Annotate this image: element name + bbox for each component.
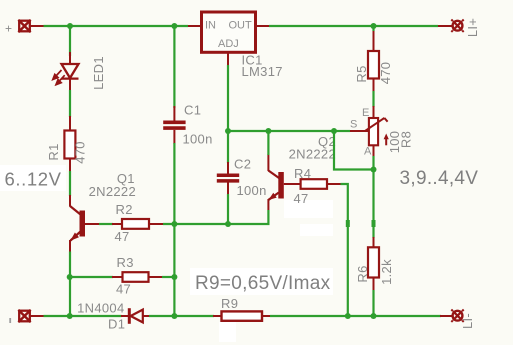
svg-text:R9: R9 <box>221 296 238 311</box>
svg-text:C2: C2 <box>234 157 251 172</box>
wire R2 to Q2 emitter corner <box>163 210 268 224</box>
terminal LI+ <box>438 20 464 32</box>
transistor Q1 <box>70 195 99 252</box>
resistor R5 <box>368 29 379 91</box>
wire top rail left <box>44 25 189 27</box>
wire C2 down <box>227 194 229 224</box>
junction R6 bottom rail <box>371 313 377 319</box>
svg-text:R5: R5 <box>354 65 369 82</box>
junction top-left node <box>67 23 73 29</box>
junction Q2 collector node <box>265 128 271 134</box>
terminal LI- <box>440 310 464 322</box>
wire ADJ vertical <box>227 65 229 131</box>
junction ADJ node <box>225 128 231 134</box>
svg-text:2N2222: 2N2222 <box>89 184 136 199</box>
junction R5 top node <box>371 23 377 29</box>
label minus <box>9 318 11 323</box>
capacitor C2 <box>217 162 239 194</box>
wire R6 to bottom rail <box>372 290 374 316</box>
svg-text:47: 47 <box>294 191 309 206</box>
resistor R3 <box>112 272 162 282</box>
svg-text:LM317: LM317 <box>242 64 283 79</box>
svg-text:6..12V: 6..12V <box>5 169 62 190</box>
svg-text:S: S <box>350 119 357 131</box>
wire joint blob left <box>346 220 350 227</box>
svg-text:LED1: LED1 <box>91 56 106 90</box>
capacitor C1 <box>163 106 185 144</box>
wire R9 to LI- <box>270 315 441 317</box>
diode D1 <box>121 308 150 324</box>
svg-text:1N4004: 1N4004 <box>77 301 124 316</box>
wire R8 to R6 <box>372 156 374 238</box>
junction R4 line bottom rail <box>345 313 351 319</box>
resistor R9 <box>213 311 270 320</box>
junction R3 left node <box>67 274 73 280</box>
svg-text:C1: C1 <box>184 103 201 118</box>
potentiometer R8 <box>349 106 389 156</box>
svg-text:OUT: OUT <box>229 20 253 32</box>
wire Q2 collector up <box>267 131 269 155</box>
wire LED to R1 <box>69 90 71 117</box>
wire C1 down to bottom rail <box>173 143 175 316</box>
transistor Q2 <box>268 154 300 210</box>
svg-text:R3: R3 <box>117 255 134 270</box>
svg-text:R6: R6 <box>355 265 370 282</box>
svg-text:D1: D1 <box>108 317 125 332</box>
svg-text:1.2k: 1.2k <box>379 259 394 285</box>
svg-text:E: E <box>362 107 369 119</box>
svg-text:470: 470 <box>73 141 88 164</box>
IC LM317 U1 <box>188 12 269 65</box>
resistor R6 <box>368 237 379 290</box>
wire wiper down leg <box>334 131 374 170</box>
svg-text:LI+: LI+ <box>465 18 480 37</box>
resistor R4 <box>301 179 341 189</box>
junction R3 right node <box>171 274 177 280</box>
svg-text:47: 47 <box>115 229 130 244</box>
wire Q1 base to R2 <box>99 223 113 225</box>
svg-text:R1: R1 <box>46 143 61 160</box>
terminal input plus <box>18 20 43 32</box>
wire D1 to R9 <box>149 315 214 317</box>
wire ADJ to C2 <box>227 131 229 163</box>
junction R8 bottom node <box>371 167 377 173</box>
svg-text:2N2222: 2N2222 <box>289 147 336 162</box>
junction C1 line at R2 wire <box>171 221 177 227</box>
wire R3 line <box>70 276 113 278</box>
svg-text:R2: R2 <box>116 202 133 217</box>
svg-text:100n: 100n <box>237 183 267 198</box>
wire LED branch <box>69 26 71 56</box>
wire R3 right <box>162 276 174 278</box>
wire wiper to junction <box>334 130 350 132</box>
wire bottom rail left <box>44 315 122 317</box>
LED LED1 <box>53 52 79 90</box>
resistor R2 <box>112 219 163 229</box>
resistor R1 <box>64 116 75 171</box>
svg-text:IN: IN <box>205 20 216 32</box>
svg-text:3,9..4,4V: 3,9..4,4V <box>400 168 479 189</box>
wire OUT to LI+ <box>269 25 438 27</box>
wire ADJ horizontal <box>228 130 334 132</box>
junction C1 line bottom rail <box>171 313 177 319</box>
svg-text:470: 470 <box>378 62 393 85</box>
svg-text:100n: 100n <box>183 132 213 147</box>
wire R1 to Q1 collector <box>69 171 71 196</box>
wire joint blob right <box>372 220 376 227</box>
wire top to R5 <box>372 26 374 31</box>
svg-text:ADJ: ADJ <box>218 38 239 50</box>
svg-text:47: 47 <box>116 282 131 297</box>
svg-text:+: + <box>5 22 12 36</box>
svg-text:LI-: LI- <box>460 313 475 329</box>
svg-text:A: A <box>364 146 372 158</box>
svg-text:R8: R8 <box>399 131 414 148</box>
junction top C1 node <box>171 23 177 29</box>
svg-text:R9=0,65V/Imax: R9=0,65V/Imax <box>195 273 331 294</box>
wire Q1 emitter down <box>69 252 71 317</box>
wire R4 right down to bottom rail <box>341 184 348 316</box>
junction wiper node <box>331 128 337 134</box>
wire R5 to R8 <box>372 91 374 107</box>
terminal input minus <box>18 310 43 322</box>
junction C2 line at R2 wire <box>225 221 231 227</box>
svg-text:R4: R4 <box>294 166 311 181</box>
wire C1 top <box>173 26 175 108</box>
junction bottom-left node <box>67 313 73 319</box>
